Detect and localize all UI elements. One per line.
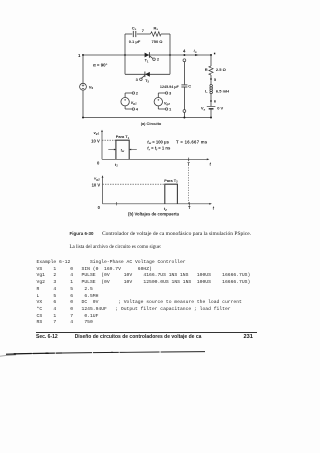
- resistor Rs: [151, 32, 171, 37]
- gate source vg2: [154, 92, 168, 110]
- node 7: [142, 28, 145, 33]
- svg-text:T: T: [188, 205, 191, 210]
- footer rule: [36, 331, 257, 334]
- thyristor T3: [140, 72, 150, 81]
- svg-text:0: 0: [98, 205, 101, 210]
- waveform vg1 tw arrows: [108, 149, 137, 151]
- svg-text:1245.94 μF: 1245.94 μF: [160, 85, 180, 89]
- waveform vg1 10V dashed level: [102, 139, 116, 141]
- svg-text:t: t: [213, 206, 215, 211]
- svg-text:tw = 100 μs: tw = 100 μs: [147, 140, 169, 146]
- node 4: [183, 48, 186, 56]
- svg-text:6: 6: [214, 99, 217, 104]
- svg-text:tr = tf = 1 ns: tr = tf = 1 ns: [147, 146, 171, 152]
- svg-text:4: 4: [136, 107, 139, 112]
- svg-text:t: t: [210, 162, 212, 167]
- svg-text:750 Ω: 750 Ω: [152, 39, 164, 44]
- battery VX 0V: [207, 106, 216, 117]
- intro line: [70, 245, 162, 250]
- svg-text:(b) Voltajes de compuerta: (b) Voltajes de compuerta: [128, 211, 180, 216]
- waveform vg1 T tick: [188, 158, 190, 162]
- netlist: [37, 260, 251, 327]
- waveform vg2 pulse: [165, 184, 178, 204]
- svg-text:0.1 μF: 0.1 μF: [129, 39, 141, 44]
- svg-text:T1: T1: [145, 59, 149, 64]
- svg-text:2: 2: [157, 57, 160, 62]
- junction snubber left: [124, 54, 126, 56]
- svg-text:2: 2: [136, 91, 139, 96]
- svg-text:10 V: 10 V: [91, 138, 100, 143]
- junction snubber right: [169, 54, 171, 56]
- svg-text:10 V: 10 V: [92, 183, 101, 188]
- wire right vertical top: [210, 55, 212, 66]
- svg-text:R: R: [205, 67, 208, 72]
- svg-text:tw: tw: [121, 147, 125, 153]
- svg-text:7: 7: [142, 28, 145, 33]
- svg-text:(a) Circuito: (a) Circuito: [141, 121, 162, 126]
- svg-text:5: 5: [214, 77, 217, 82]
- junction bottom-left corner: [82, 117, 84, 119]
- caption (b): [128, 211, 180, 216]
- node 5: [210, 77, 217, 82]
- caption (a) Circuito: [141, 121, 162, 126]
- waveform vg2 labels: [92, 176, 215, 212]
- node 6: [210, 99, 217, 104]
- svg-text:2.5 Ω: 2.5 Ω: [216, 67, 227, 72]
- waveform vg1 labels: [91, 130, 211, 168]
- waveform annotations: [147, 140, 208, 152]
- wire bottom return: [83, 117, 211, 119]
- inductor L: [210, 85, 213, 107]
- svg-text:io: io: [194, 48, 197, 54]
- svg-text:C: C: [188, 84, 191, 89]
- svg-text:6.5 mH: 6.5 mH: [216, 89, 229, 94]
- svg-text:t1: t1: [115, 162, 118, 168]
- svg-text:0: 0: [97, 161, 100, 166]
- waveform vg1 y-axis: [101, 130, 103, 160]
- waveform vg2 y-axis: [102, 175, 104, 204]
- scan artifact streak: [0, 344, 320, 364]
- capacitor Cs: [125, 31, 151, 37]
- svg-text:3: 3: [136, 77, 139, 82]
- node 1: [78, 53, 84, 58]
- wire left vertical (source branch): [82, 55, 84, 118]
- svg-text:0 V: 0 V: [217, 105, 223, 110]
- svg-text:vg1: vg1: [94, 130, 100, 136]
- resistor R: [209, 66, 213, 85]
- waveform vg2 10V dashed level: [103, 183, 165, 185]
- svg-text:1: 1: [169, 107, 172, 112]
- wire T3 branch: [125, 73, 170, 75]
- svg-text:4: 4: [183, 48, 186, 53]
- current io arrow: [194, 48, 199, 56]
- waveform vg1 x-axis: [102, 158, 209, 160]
- waveform vg2 x-axis: [103, 203, 212, 205]
- CIRCUIT + WAVEFORM SVG: [0, 0, 320, 228]
- load corner node: [210, 53, 215, 56]
- svg-text:Para T1: Para T1: [116, 134, 130, 140]
- source VS: [80, 83, 87, 90]
- svg-text:3: 3: [169, 91, 172, 96]
- svg-text:α = 90°: α = 90°: [93, 63, 108, 68]
- dashed vertical at T: [188, 160, 190, 204]
- waveform vg1 pulse: [116, 140, 129, 159]
- gate source vg1: [121, 92, 135, 110]
- footer text: [36, 334, 266, 340]
- svg-text:L: L: [205, 89, 208, 94]
- wire main top (node 1 to load corner): [83, 54, 211, 56]
- wire snubber right vertical: [169, 34, 171, 74]
- svg-text:vg2: vg2: [164, 100, 170, 106]
- svg-text:Cs: Cs: [132, 25, 137, 31]
- svg-text:1: 1: [78, 53, 81, 58]
- figure caption: [70, 231, 270, 237]
- label vs: [89, 84, 93, 90]
- svg-text:T = 16.667 ms: T = 16.667 ms: [176, 140, 208, 145]
- svg-text:vg2: vg2: [94, 176, 100, 182]
- thyristor T1: [145, 52, 156, 60]
- svg-text:Rs: Rs: [154, 25, 159, 31]
- label alpha=90: [93, 63, 108, 68]
- waveform vg2 ticks: [117, 202, 190, 206]
- wire snubber left vertical: [124, 34, 126, 74]
- svg-text:Vx: Vx: [201, 106, 206, 112]
- svg-text:Para T2: Para T2: [164, 178, 178, 184]
- capacitor C branch: [181, 59, 187, 118]
- svg-text:vg1: vg1: [131, 100, 137, 106]
- svg-text:T3: T3: [145, 79, 149, 84]
- svg-text:vs: vs: [89, 84, 93, 90]
